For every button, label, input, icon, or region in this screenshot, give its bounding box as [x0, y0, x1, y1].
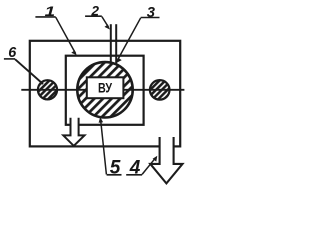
svg-text:ВУ: ВУ: [98, 80, 113, 95]
left port circle: [38, 80, 57, 99]
centerline axis: [21, 89, 184, 91]
inlet pipe: [110, 24, 112, 63]
svg-text:3: 3: [147, 5, 156, 21]
outer casing box: [30, 41, 180, 147]
right port circle: [150, 80, 170, 100]
right outlet arrow: [150, 137, 182, 183]
inner unit box: [66, 56, 144, 125]
measuring unit VU box: [87, 77, 124, 98]
center outlet arrow: [63, 118, 84, 146]
rotor circle hatched: [77, 62, 132, 117]
